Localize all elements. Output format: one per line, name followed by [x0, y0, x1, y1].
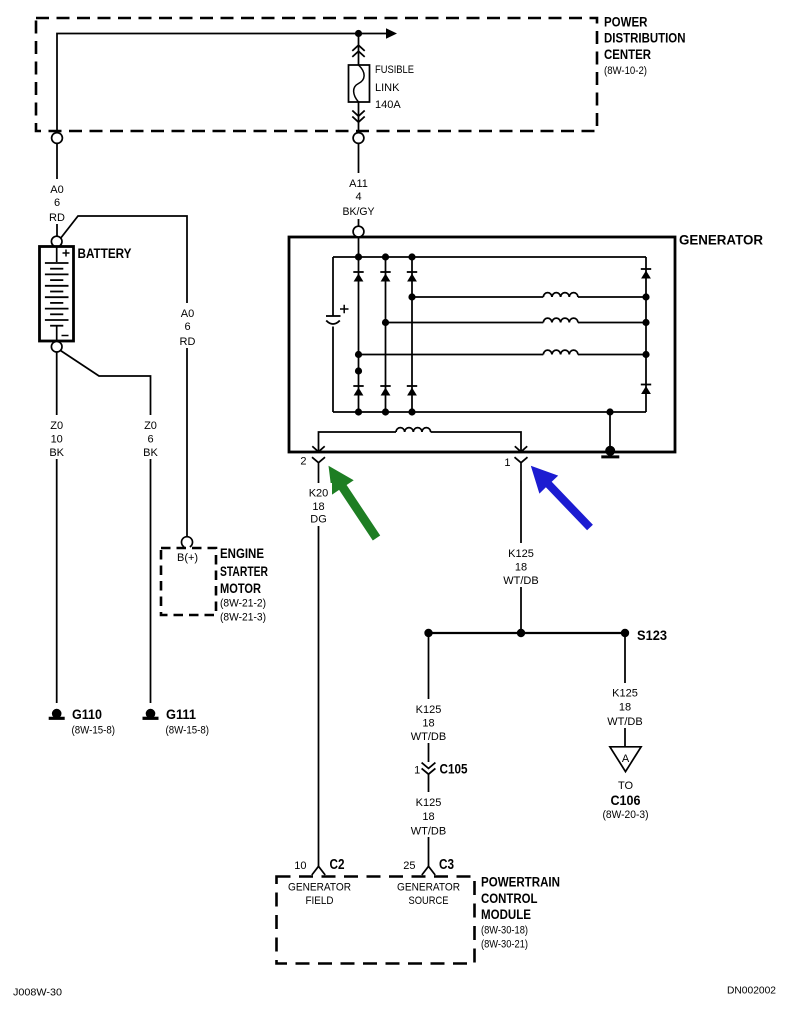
wire K125 pin1 to splice: [520, 481, 522, 634]
svg-text:4: 4: [355, 191, 361, 203]
connector pin 1: [515, 457, 528, 480]
label Z0 6 BK: [137, 415, 164, 459]
wire fusible link to terminal: [358, 102, 360, 133]
wire stator phase 1: [412, 296, 646, 298]
terminal generator B+: [353, 226, 364, 237]
svg-text:LINK: LINK: [375, 82, 400, 94]
svg-text:WT/DB: WT/DB: [411, 826, 446, 838]
svg-text:Z0: Z0: [50, 420, 63, 432]
svg-text:18: 18: [619, 702, 631, 714]
svg-text:25: 25: [403, 860, 415, 872]
svg-text:C3: C3: [439, 857, 454, 873]
diode right top: [641, 269, 651, 279]
svg-text:6: 6: [184, 321, 190, 333]
svg-text:BK: BK: [49, 447, 64, 459]
diode bottom column 3: [407, 386, 417, 396]
wire K20 18 DG: [318, 482, 320, 867]
diode right bottom: [641, 385, 651, 395]
svg-text:Z0: Z0: [144, 420, 157, 432]
fusible link 140A: [349, 65, 370, 102]
pin 1 arrow: [515, 446, 527, 452]
node splice left: [424, 629, 432, 637]
label G110: [72, 707, 116, 737]
ground generator internal: [601, 446, 619, 457]
node column 2 top: [382, 253, 389, 260]
svg-text:1: 1: [504, 457, 510, 469]
battery negative terminal: [51, 341, 62, 352]
engine starter motor box: [161, 548, 216, 615]
capacitor: [326, 305, 349, 324]
terminal B(+) starter motor: [182, 537, 193, 547]
wire rectifier right bus: [645, 257, 647, 412]
svg-text:ENGINE: ENGINE: [220, 546, 264, 561]
svg-text:RD: RD: [49, 212, 65, 224]
wire splice to C105: [428, 633, 430, 762]
connector chevrons above fusible link: [352, 45, 364, 57]
svg-text:WT/DB: WT/DB: [503, 575, 538, 587]
wire A0 6 RD: [56, 143, 58, 236]
diode top column 1: [353, 272, 363, 282]
svg-text:C106: C106: [611, 793, 641, 808]
connector C2 cup: [312, 866, 325, 875]
wire rectifier bottom bus: [333, 411, 646, 413]
label K125 18 WT/DB to C106: [605, 683, 645, 728]
wire capacitor branch: [332, 257, 334, 412]
label generator source: [397, 882, 460, 908]
connector C3 cup: [422, 866, 435, 875]
node column 3 phase tap: [408, 293, 415, 300]
wire stator phase 3: [359, 354, 647, 356]
svg-text:BK: BK: [143, 447, 158, 459]
diode top column 2: [380, 272, 390, 282]
node stator phase 2 right: [642, 319, 649, 326]
wire rotor field right leg: [431, 432, 521, 451]
node bus junction: [355, 30, 362, 37]
battery: [40, 247, 74, 342]
node column 2 bottom: [382, 408, 389, 415]
label K125 18 WT/DB below C105: [409, 792, 449, 838]
wire Z0 10 BK: [56, 352, 58, 703]
svg-text:SOURCE: SOURCE: [409, 895, 449, 907]
svg-text:G110: G110: [72, 707, 102, 722]
battery positive terminal: [51, 236, 62, 247]
label K20 18 DG: [305, 483, 332, 526]
label A0 6 RD starter: [174, 303, 201, 348]
node column 1 extra: [355, 367, 362, 374]
svg-text:CONTROL: CONTROL: [481, 891, 538, 906]
terminal A11 at PDC: [353, 133, 364, 144]
svg-text:B(+): B(+): [177, 552, 198, 564]
connector chevrons below fusible link: [352, 111, 364, 123]
label A11 4 BK/GY: [338, 173, 379, 219]
svg-text:(8W-15-8): (8W-15-8): [166, 725, 210, 737]
node ground tap: [606, 408, 613, 415]
wire rectifier column 1: [358, 257, 360, 412]
label engine starter motor: [220, 546, 268, 624]
node column 1 top: [355, 253, 362, 260]
svg-text:6: 6: [54, 197, 60, 209]
svg-text:140A: 140A: [375, 99, 401, 111]
wire generator B+ stub: [358, 237, 360, 257]
node column 3 bottom: [408, 408, 415, 415]
svg-text:WT/DB: WT/DB: [411, 731, 446, 743]
diode bottom column 2: [380, 386, 390, 396]
label generator field: [288, 882, 351, 908]
svg-text:A0: A0: [181, 308, 194, 320]
node column 3 top: [408, 253, 415, 260]
svg-text:FUSIBLE: FUSIBLE: [375, 64, 414, 76]
svg-text:POWERTRAIN: POWERTRAIN: [481, 875, 560, 890]
svg-text:GENERATOR: GENERATOR: [288, 882, 351, 894]
svg-text:10: 10: [51, 434, 63, 446]
label A0 6 RD: [44, 179, 70, 224]
wire rotor field left leg: [319, 432, 397, 451]
svg-text:J008W-30: J008W-30: [13, 987, 62, 999]
wire fusible link feed: [358, 34, 360, 66]
label power distribution center: [604, 15, 686, 78]
ground G111: [143, 709, 159, 719]
wire rectifier column 2: [385, 257, 387, 412]
diode top column 3: [407, 272, 417, 282]
label TO C106: [603, 780, 649, 821]
wire C105 to C3: [428, 774, 430, 867]
wire splice S123: [429, 632, 626, 634]
svg-text:K125: K125: [416, 797, 442, 809]
label fusible link 140A: [375, 64, 414, 111]
off-page connector A to C106: [610, 747, 641, 772]
svg-text:K125: K125: [508, 548, 534, 560]
node stator phase 3 right: [642, 351, 649, 358]
svg-text:A0: A0: [50, 184, 63, 196]
svg-text:A11: A11: [349, 178, 368, 190]
svg-text:1: 1: [414, 765, 420, 777]
svg-text:MODULE: MODULE: [481, 907, 531, 922]
svg-text:(8W-10-2): (8W-10-2): [604, 65, 647, 77]
svg-text:K125: K125: [416, 704, 442, 716]
svg-text:GENERATOR: GENERATOR: [397, 882, 460, 894]
svg-text:RD: RD: [180, 336, 196, 348]
svg-text:G111: G111: [166, 707, 196, 722]
wire A11 4 BK/GY: [358, 143, 360, 226]
svg-text:C2: C2: [330, 857, 345, 873]
wire PDC internal bus: [57, 34, 386, 134]
node column 1 bottom: [355, 408, 362, 415]
wire bus arrow head: [386, 28, 397, 38]
svg-text:BK/GY: BK/GY: [343, 206, 376, 218]
svg-text:18: 18: [422, 718, 434, 730]
ground G110: [49, 709, 65, 719]
svg-text:(8W-20-3): (8W-20-3): [603, 809, 649, 821]
power distribution center box: [36, 18, 597, 131]
label K125 18 WT/DB above C105: [409, 699, 449, 743]
svg-text:CENTER: CENTER: [604, 47, 651, 62]
svg-text:(8W-30-18): (8W-30-18): [481, 925, 528, 937]
svg-text:C105: C105: [440, 762, 468, 777]
inductor rotor field winding: [396, 428, 431, 432]
diode bottom column 1: [353, 386, 363, 396]
label Z0 10 BK: [43, 415, 70, 459]
node splice middle: [517, 629, 525, 637]
wire battery positive to starter feed: [61, 216, 187, 536]
generator box: [289, 237, 675, 452]
wire to internal ground: [609, 412, 611, 446]
connector C105 chevrons: [422, 763, 436, 775]
svg-text:WT/DB: WT/DB: [607, 716, 642, 728]
svg-text:K125: K125: [612, 688, 638, 700]
node column 2 phase tap: [382, 319, 389, 326]
label powertrain control module: [481, 875, 560, 951]
powertrain control module box: [277, 877, 475, 964]
wire splice to C106: [624, 633, 626, 747]
svg-text:POWER: POWER: [604, 15, 648, 30]
svg-text:2: 2: [300, 456, 306, 468]
inductor stator winding 3: [543, 350, 578, 354]
blue callout arrow pin 1: [531, 466, 593, 531]
svg-text:18: 18: [515, 562, 527, 574]
label G111: [166, 707, 210, 737]
connector pin 2: [312, 457, 325, 481]
node splice right: [621, 629, 629, 637]
svg-text:10: 10: [294, 860, 306, 872]
svg-text:6: 6: [147, 434, 153, 446]
svg-text:K20: K20: [309, 488, 329, 500]
svg-text:GENERATOR: GENERATOR: [679, 233, 763, 248]
svg-text:DN002002: DN002002: [727, 985, 776, 997]
svg-text:FIELD: FIELD: [306, 895, 334, 907]
svg-text:BATTERY: BATTERY: [78, 246, 132, 261]
svg-text:18: 18: [312, 501, 324, 513]
svg-text:A: A: [622, 753, 630, 765]
wire stator phase 2: [386, 322, 647, 324]
wire rectifier column 3: [411, 257, 413, 412]
svg-text:MOTOR: MOTOR: [220, 581, 261, 596]
svg-text:TO: TO: [618, 780, 634, 792]
label K125 18 WT/DB pin1: [501, 543, 541, 587]
inductor stator winding 1: [543, 293, 578, 297]
svg-text:(8W-30-21): (8W-30-21): [481, 939, 528, 951]
svg-text:18: 18: [422, 811, 434, 823]
inductor stator winding 2: [543, 318, 578, 322]
svg-text:DG: DG: [310, 514, 327, 526]
node column 1 phase tap: [355, 351, 362, 358]
svg-text:S123: S123: [637, 628, 667, 643]
wire Z0 6 BK: [61, 351, 151, 704]
node stator phase 1 right: [642, 293, 649, 300]
terminal A0 at PDC: [52, 133, 63, 144]
svg-text:(8W-21-3): (8W-21-3): [220, 612, 266, 624]
svg-text:(8W-15-8): (8W-15-8): [72, 725, 116, 737]
wire rectifier top bus: [333, 256, 646, 258]
green callout arrow pin 2: [329, 466, 381, 541]
pin 2 arrow: [312, 446, 324, 452]
svg-text:STARTER: STARTER: [220, 564, 268, 579]
svg-text:(8W-21-2): (8W-21-2): [220, 598, 266, 610]
svg-text:DISTRIBUTION: DISTRIBUTION: [604, 31, 686, 46]
